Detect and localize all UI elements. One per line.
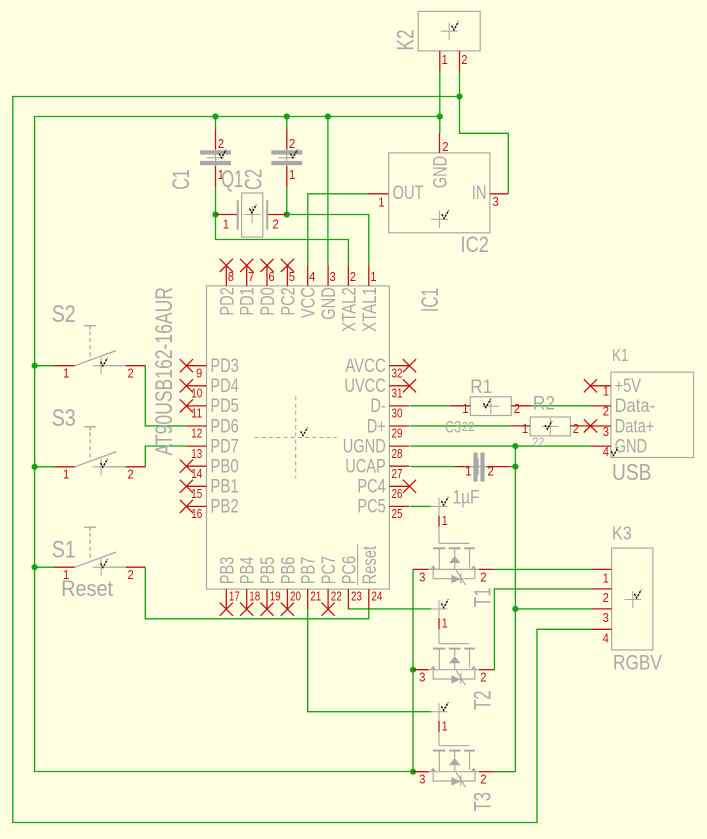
switch S1 origin cross <box>93 559 110 576</box>
svg-text:1: 1 <box>442 514 448 528</box>
switch S1 contact lead <box>110 566 126 568</box>
IC2 origin checkmark <box>442 210 449 218</box>
svg-text:8: 8 <box>228 269 234 284</box>
svg-text:PD5: PD5 <box>210 395 239 417</box>
transistor T1 symbol <box>438 527 440 544</box>
svg-text:1: 1 <box>378 195 384 210</box>
capacitor C2 top lead <box>286 129 288 151</box>
IC1 pin 23 stub <box>347 589 349 609</box>
svg-text:K1: K1 <box>612 345 629 365</box>
switch S2 pin 1 stub <box>55 365 75 367</box>
switch S2 origin cross <box>93 357 110 374</box>
switch S3 lever <box>75 452 117 467</box>
capacitor C1 origin cross <box>207 149 224 166</box>
IC2 pin 1 OUT stub <box>369 193 389 195</box>
svg-text:+5V: +5V <box>615 375 641 397</box>
IC1 pin 14 PB0 stub <box>186 465 206 467</box>
svg-text:1: 1 <box>603 384 609 399</box>
wire net PD6 S2 to IC1 pin12 <box>145 366 186 426</box>
svg-text:22: 22 <box>462 419 475 434</box>
K3 pin 2 stub <box>592 588 611 590</box>
transistor T3 origin cross <box>431 703 448 720</box>
svg-text:1: 1 <box>223 217 229 232</box>
wire net DataMinus R1 to K1 pin2 <box>531 405 590 407</box>
IC1 pin 20 stub <box>286 589 288 609</box>
svg-text:20: 20 <box>290 588 301 603</box>
resistor R1 origin cross <box>483 398 500 415</box>
svg-text:3: 3 <box>603 610 609 625</box>
svg-text:S3: S3 <box>52 405 76 432</box>
svg-text:1: 1 <box>442 719 448 733</box>
IC1 pin 15 PB1 stub <box>186 485 206 487</box>
K1 pin 4 stub <box>590 445 611 447</box>
svg-text:T2: T2 <box>470 691 497 711</box>
IC1 origin checkmark <box>301 427 308 435</box>
svg-text:30: 30 <box>392 406 403 421</box>
svg-text:1: 1 <box>289 167 295 182</box>
IC1 origin cross <box>255 396 337 478</box>
IC1 pin 22 no-connect X <box>322 603 335 616</box>
IC1 pin 27 UCAP stub <box>389 465 409 467</box>
wire net S1 left <box>35 566 55 568</box>
IC1 pin 7 no-connect X <box>240 259 253 272</box>
wire net S2 left <box>35 365 55 367</box>
svg-text:AVCC: AVCC <box>345 355 386 377</box>
svg-text:31: 31 <box>392 386 403 401</box>
wire net PC6 IC1 pin23 to T2 pin1 <box>348 608 431 610</box>
IC1 pin 8 PD2 stub <box>225 265 227 286</box>
wire net UGND vertical rail <box>514 446 516 772</box>
svg-text:3: 3 <box>419 772 425 787</box>
svg-text:UGND: UGND <box>343 435 386 457</box>
IC1 pin 19 no-connect X <box>260 603 273 616</box>
svg-text:Q1: Q1 <box>221 166 243 193</box>
IC1 pin 13 PD7 stub <box>186 445 206 447</box>
capacitor C1 bottom lead <box>215 165 217 187</box>
wire net PD7 S3 to IC1 pin13 <box>145 446 186 467</box>
svg-text:PC2: PC2 <box>277 287 299 315</box>
transistor T2 pin 3 stub <box>413 669 429 671</box>
svg-text:2: 2 <box>128 467 134 482</box>
IC1 pin 32 no-connect X <box>403 359 416 372</box>
IC1 pin 9 no-connect X <box>180 359 193 372</box>
junction GND at C1 <box>212 113 218 119</box>
junction XTAL2 at Q1 pin1 <box>212 211 218 217</box>
svg-text:PB3: PB3 <box>216 557 238 585</box>
junction GND at T3 pin3 <box>410 769 416 775</box>
svg-text:PC5: PC5 <box>357 496 386 518</box>
switch S3 pin 1 stub <box>55 466 75 468</box>
crystal Q1 pin 2 stub <box>267 214 287 216</box>
svg-text:C3: C3 <box>445 418 461 436</box>
capacitor C1 plates <box>200 150 231 154</box>
IC2 pin 3 IN stub <box>490 193 508 195</box>
IC2 origin cross <box>431 211 448 228</box>
IC1 pin 16 no-connect X <box>180 500 193 513</box>
svg-text:29: 29 <box>392 426 403 441</box>
switch S2 contact lead <box>110 365 126 367</box>
capacitor C1 checkmark <box>219 150 226 158</box>
IC1 pin 31 UVCC stub <box>389 385 409 387</box>
svg-text:1: 1 <box>63 467 69 482</box>
resistor R1 pin 1 stub <box>450 405 470 407</box>
svg-text:PD0: PD0 <box>257 287 279 316</box>
svg-text:PB6: PB6 <box>277 557 299 585</box>
wire net +5V IC2 OUT to IC1 VCC pin4 <box>308 194 369 266</box>
IC1 pin 12 PD6 stub <box>186 425 206 427</box>
junction GND at K2 pin1 <box>437 113 443 119</box>
IC1 pin 29 D+ stub <box>389 425 409 427</box>
IC1 pin 5 PC2 stub <box>286 265 288 286</box>
svg-text:2: 2 <box>289 136 295 151</box>
IC1 pin 7 PD1 stub <box>246 265 248 286</box>
IC1 pin 17 stub <box>225 589 227 609</box>
svg-text:2: 2 <box>480 670 486 685</box>
crystal Q1 pin 1 stub <box>216 214 238 216</box>
switch S3 actuator dashes <box>89 432 91 461</box>
svg-text:R1: R1 <box>470 376 492 398</box>
wire net PB7 IC1 pin21 to T3 pin1 <box>308 609 432 712</box>
svg-text:AT90USB162-16AUR: AT90USB162-16AUR <box>151 287 178 456</box>
svg-text:2: 2 <box>573 421 579 436</box>
svg-text:2: 2 <box>480 772 486 787</box>
K1 pin 2 stub <box>590 405 611 407</box>
svg-text:D+: D+ <box>367 415 386 437</box>
transistor T3 pin 3 stub <box>413 771 429 773</box>
junction GND at S3 pin1 <box>31 464 37 470</box>
IC1 pin 4 VCC stub <box>307 265 309 286</box>
IC1 pin 25 PC5 stub <box>389 505 409 507</box>
svg-text:PB7: PB7 <box>298 557 320 585</box>
svg-text:2: 2 <box>218 136 224 151</box>
svg-text:C2: C2 <box>241 169 268 190</box>
wire net UCAP C3 to UGND rail <box>510 466 515 468</box>
svg-text:3: 3 <box>493 194 499 209</box>
IC1 pin 21 stub <box>307 589 309 609</box>
svg-text:GND: GND <box>615 435 648 457</box>
svg-text:12: 12 <box>191 426 202 441</box>
IC1 pin 10 no-connect X <box>180 379 193 392</box>
wire net GND stub to IC2 GND <box>439 117 441 134</box>
wire net GND drop to C1 <box>215 117 217 129</box>
svg-text:6: 6 <box>268 269 274 284</box>
IC1 pin 11 PD5 stub <box>186 405 206 407</box>
wire net IN outer loop K2.2 to K3.4 <box>459 71 461 96</box>
K3 pin 4 stub <box>592 628 611 630</box>
capacitor C3 origin cross <box>470 458 487 475</box>
svg-text:1: 1 <box>465 464 471 479</box>
transistor T2 pin 1 stub <box>438 618 440 629</box>
transistor T3 pin 2 stub <box>479 771 494 773</box>
svg-text:3: 3 <box>603 424 609 439</box>
IC2 pin 2 GND stub <box>439 133 441 153</box>
wire net UGND to K3 pin3 <box>515 608 592 610</box>
svg-text:PD4: PD4 <box>210 375 239 397</box>
svg-text:1: 1 <box>442 617 448 631</box>
IC1 pin 15 no-connect X <box>180 480 193 493</box>
IC1 pin 6 PD0 stub <box>266 265 268 286</box>
switch S2 checkmark <box>101 358 108 366</box>
svg-text:1: 1 <box>522 421 528 436</box>
wire net GND drop to IC1 GND pin3 <box>327 117 329 266</box>
transistor T2 pin 2 stub <box>479 669 494 671</box>
svg-text:2: 2 <box>514 401 520 416</box>
IC1 pin 24 stub <box>368 589 370 609</box>
svg-text:28: 28 <box>392 446 403 461</box>
capacitor C3 pin 2 stub <box>485 466 511 468</box>
crystal Q1 body <box>242 193 263 237</box>
svg-text:3: 3 <box>419 569 425 584</box>
svg-text:1: 1 <box>603 571 609 586</box>
svg-text:IC2: IC2 <box>461 232 489 257</box>
IC1 pin 32 AVCC stub <box>389 365 409 367</box>
svg-text:2: 2 <box>603 590 609 605</box>
resistor R1 body <box>470 397 511 416</box>
K2 pin 2 stub <box>459 51 461 72</box>
resistor R2 checkmark <box>545 421 552 429</box>
IC1 pin 14 no-connect X <box>180 460 193 473</box>
IC1 pin 22 stub <box>327 589 329 609</box>
wire net RED T1 pin2 to K3 pin1 <box>494 568 593 570</box>
junction UGND at C3 row <box>512 464 518 470</box>
svg-text:3: 3 <box>330 269 336 284</box>
transistor T1 origin cross <box>431 498 448 515</box>
K1 pin 4 checkmark <box>611 447 618 455</box>
transistor T1 pin 3 stub <box>413 568 429 570</box>
svg-text:21: 21 <box>310 588 321 603</box>
svg-text:2: 2 <box>603 404 609 419</box>
svg-text:PB1: PB1 <box>210 476 238 498</box>
K2 pin 1 stub <box>439 51 441 72</box>
IC1 pin 8 no-connect X <box>220 259 233 272</box>
transistor T3 pin 1 stub <box>438 721 440 732</box>
svg-text:5: 5 <box>289 269 295 284</box>
svg-text:OUT: OUT <box>393 182 424 204</box>
svg-text:K2: K2 <box>393 30 420 51</box>
wire net S3 left <box>35 466 55 468</box>
svg-text:PD7: PD7 <box>210 435 238 457</box>
svg-text:2: 2 <box>442 139 448 154</box>
svg-text:Reset: Reset <box>61 576 113 601</box>
svg-text:4: 4 <box>603 631 609 646</box>
IC1 pin 30 D- stub <box>389 405 409 407</box>
svg-text:11: 11 <box>191 406 202 421</box>
svg-text:27: 27 <box>392 466 403 481</box>
svg-text:10: 10 <box>191 386 202 401</box>
IC1 pin 28 UGND stub <box>389 445 409 447</box>
svg-text:XTAL1: XTAL1 <box>359 287 381 332</box>
svg-text:UCAP: UCAP <box>345 456 386 478</box>
IC1 pin 19 stub <box>266 589 268 609</box>
junction XTAL1 at Q1 pin2 <box>284 211 290 217</box>
IC1 pin 5 no-connect X <box>281 259 294 272</box>
svg-text:9: 9 <box>196 365 202 380</box>
wire net IN branch to IC2 IN <box>460 97 509 194</box>
svg-text:24: 24 <box>371 588 382 603</box>
K3 pin 1 stub <box>592 568 611 570</box>
svg-text:Reset: Reset <box>359 545 381 584</box>
resistor R2 pin 2 stub <box>570 425 590 427</box>
wire net PC5 IC1 pin25 to T1 pin1 <box>410 505 431 507</box>
svg-text:13: 13 <box>191 446 202 461</box>
svg-text:T3: T3 <box>470 792 497 812</box>
transistor T1 pin 1 checkmark <box>441 497 448 505</box>
K3 pin 3 stub <box>592 608 611 610</box>
svg-text:PB0: PB0 <box>210 456 239 478</box>
svg-text:4: 4 <box>603 444 609 459</box>
K1 pin 1 stub <box>590 385 611 387</box>
switch S3 contact lead <box>110 466 126 468</box>
transistor T2 symbol <box>438 629 440 644</box>
K1 pin 3 stub <box>590 425 611 427</box>
capacitor C3 plates <box>473 453 477 482</box>
IC1 pin 2 XTAL2 stub <box>347 265 349 286</box>
svg-text:Data-: Data- <box>615 395 656 417</box>
svg-text:K3: K3 <box>612 524 632 544</box>
resistor R1 pin 2 stub <box>511 405 531 407</box>
junction GND at IC1 pin3 column <box>325 113 331 119</box>
svg-text:18: 18 <box>249 588 260 603</box>
switch S2 lever <box>75 351 117 366</box>
IC1 pin 16 PB2 stub <box>186 505 206 507</box>
resistor R2 origin cross <box>542 418 559 435</box>
K3 origin checkmark <box>634 590 641 598</box>
svg-text:PD2: PD2 <box>216 287 238 315</box>
IC1 pin name Reset overline <box>357 545 359 586</box>
svg-text:2: 2 <box>461 52 467 67</box>
svg-text:25: 25 <box>392 506 403 521</box>
svg-text:PC4: PC4 <box>357 476 386 498</box>
capacitor C1 top lead <box>215 129 217 151</box>
transistor T2 origin cross <box>431 600 448 617</box>
crystal Q1 electrodes <box>237 200 239 229</box>
wire net UCAP IC1 pin27 to C3 <box>410 466 454 468</box>
crystal Q1 origin cross <box>244 206 261 223</box>
switch S2 pin 2 stub <box>126 365 146 367</box>
svg-text:1: 1 <box>370 269 376 284</box>
svg-text:17: 17 <box>229 588 240 603</box>
capacitor C3 pin 1 stub <box>454 466 473 468</box>
svg-text:22: 22 <box>331 588 342 603</box>
wire net D+ IC1 pin29 to R2 <box>410 425 510 427</box>
connector K3 body <box>612 548 653 650</box>
svg-text:GND: GND <box>318 287 340 320</box>
IC1 pin 1 XTAL1 stub <box>368 265 370 286</box>
wire net UGND to T3 pin2 <box>494 771 516 773</box>
svg-text:2: 2 <box>128 567 134 582</box>
junction GND at S2 pin1 <box>31 363 37 369</box>
svg-text:S2: S2 <box>52 301 76 328</box>
switch S3 checkmark <box>101 459 108 467</box>
resistor R2 no-connect X <box>584 419 597 432</box>
resistor R2 pin 1 stub <box>510 425 530 427</box>
resistor R1 checkmark <box>484 399 491 407</box>
svg-text:PB2: PB2 <box>210 496 238 518</box>
svg-text:GND: GND <box>429 156 451 189</box>
junction GND at C2 <box>284 113 290 119</box>
svg-text:1: 1 <box>462 401 468 416</box>
IC IC1 AT90USB162 body <box>207 286 390 589</box>
svg-text:PB4: PB4 <box>237 557 259 585</box>
svg-text:IC1: IC1 <box>417 288 444 312</box>
svg-text:1: 1 <box>63 366 69 381</box>
svg-text:T1: T1 <box>470 588 497 608</box>
svg-text:3: 3 <box>419 670 425 685</box>
svg-text:Data+: Data+ <box>615 415 655 437</box>
transistor T3 symbol <box>438 732 440 746</box>
svg-text:UVCC: UVCC <box>344 375 385 397</box>
IC1 pin 9 PD3 stub <box>186 365 206 367</box>
switch S2 actuator dashes <box>89 331 91 360</box>
svg-text:4: 4 <box>309 269 315 284</box>
junction GND at T2 pin3 <box>410 667 416 673</box>
IC1 pin 26 PC4 stub <box>389 485 409 487</box>
wire net D- IC1 pin30 to R1 <box>410 405 450 407</box>
wire net XTAL1 C2 to Q1.2 and IC1 pin1 <box>286 187 288 214</box>
wire net GREEN T2 pin2 to K3 pin2 <box>494 589 593 670</box>
svg-text:USB: USB <box>612 459 652 485</box>
connector K1 body <box>611 372 694 457</box>
K2 origin cross <box>441 23 458 40</box>
junction net IN at K2 pin2 <box>456 93 462 99</box>
capacitor C2 plates <box>271 150 302 154</box>
svg-text:C1: C1 <box>168 169 195 190</box>
IC1 pin 20 no-connect X <box>281 603 294 616</box>
junction GND at S1 pin1 <box>31 564 37 570</box>
svg-text:PB5: PB5 <box>257 557 279 585</box>
svg-text:PD1: PD1 <box>237 287 259 315</box>
wire net GND transistor rail <box>412 569 414 771</box>
svg-text:S1: S1 <box>52 537 76 564</box>
IC1 pin 11 no-connect X <box>180 399 193 412</box>
crystal Q1 checkmark <box>249 205 256 213</box>
wire net GND drop to C2 <box>286 117 288 129</box>
svg-text:1µF: 1µF <box>453 487 480 508</box>
svg-text:VCC: VCC <box>298 287 320 318</box>
IC1 pin 6 no-connect X <box>260 259 273 272</box>
junction UGND at K1 row <box>512 443 518 449</box>
IC1 pin 17 no-connect X <box>220 603 233 616</box>
svg-text:2: 2 <box>128 366 134 381</box>
switch S3 pin 2 stub <box>126 466 146 468</box>
svg-text:1: 1 <box>442 52 448 67</box>
svg-text:23: 23 <box>351 588 362 603</box>
IC1 pin 31 no-connect X <box>403 379 416 392</box>
svg-text:22: 22 <box>532 435 544 449</box>
switch S1 checkmark <box>101 559 108 567</box>
svg-text:2: 2 <box>480 569 486 584</box>
transistor T2 pin 1 checkmark <box>441 599 448 607</box>
IC1 pin 26 no-connect X <box>403 480 416 493</box>
svg-text:PC7: PC7 <box>318 556 340 584</box>
svg-text:15: 15 <box>191 486 202 501</box>
junction UGND at K3 pin3 row <box>512 606 518 612</box>
svg-text:16: 16 <box>191 506 202 521</box>
resistor R2 body <box>530 417 570 436</box>
svg-text:PD6: PD6 <box>210 415 238 437</box>
switch S1 actuator dashes <box>89 533 91 562</box>
svg-text:RGBV: RGBV <box>613 651 662 675</box>
svg-text:2: 2 <box>273 217 279 232</box>
wire net XTAL2 C1 to Q1.1 and IC1 pin2 <box>216 187 349 265</box>
svg-text:R2: R2 <box>533 392 555 414</box>
switch S1 lever <box>75 552 117 567</box>
IC IC2 regulator body <box>389 153 490 233</box>
IC1 pin 3 GND stub <box>327 265 329 286</box>
capacitor C2 bottom lead <box>286 165 288 187</box>
svg-text:D-: D- <box>370 395 385 417</box>
K2 origin checkmark <box>452 22 459 30</box>
